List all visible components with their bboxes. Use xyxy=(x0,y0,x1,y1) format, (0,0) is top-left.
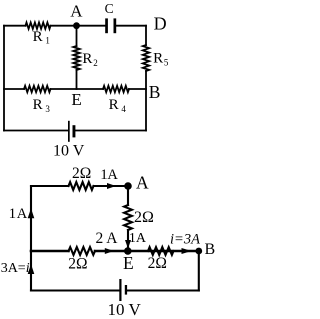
svg-text:C: C xyxy=(105,1,114,16)
svg-text:A: A xyxy=(17,206,28,222)
svg-text:R2: R2 xyxy=(82,51,97,68)
svg-text:2Ω: 2Ω xyxy=(148,255,167,272)
svg-text:1A: 1A xyxy=(129,231,147,246)
svg-text:i=3A: i=3A xyxy=(170,232,200,248)
svg-text:B: B xyxy=(149,82,161,102)
svg-text:1: 1 xyxy=(9,206,17,222)
svg-text:R3: R3 xyxy=(33,97,51,114)
svg-text:A: A xyxy=(70,1,83,20)
svg-text:2 A: 2 A xyxy=(96,230,119,247)
svg-text:B: B xyxy=(205,241,216,258)
svg-text:2Ω: 2Ω xyxy=(134,209,154,226)
svg-text:R1: R1 xyxy=(33,29,50,46)
svg-text:A: A xyxy=(107,167,118,183)
svg-text:D: D xyxy=(154,14,167,34)
svg-text:A: A xyxy=(136,172,149,192)
svg-text:R5: R5 xyxy=(153,51,169,68)
svg-text:2Ω: 2Ω xyxy=(72,165,91,182)
svg-text:R4: R4 xyxy=(109,97,127,114)
svg-text:E: E xyxy=(123,253,134,273)
svg-text:2Ω: 2Ω xyxy=(68,255,87,272)
svg-text:10 V: 10 V xyxy=(53,143,85,160)
svg-text:10 V: 10 V xyxy=(108,300,142,319)
svg-text:3A=i: 3A=i xyxy=(1,261,30,276)
svg-text:E: E xyxy=(71,90,81,109)
